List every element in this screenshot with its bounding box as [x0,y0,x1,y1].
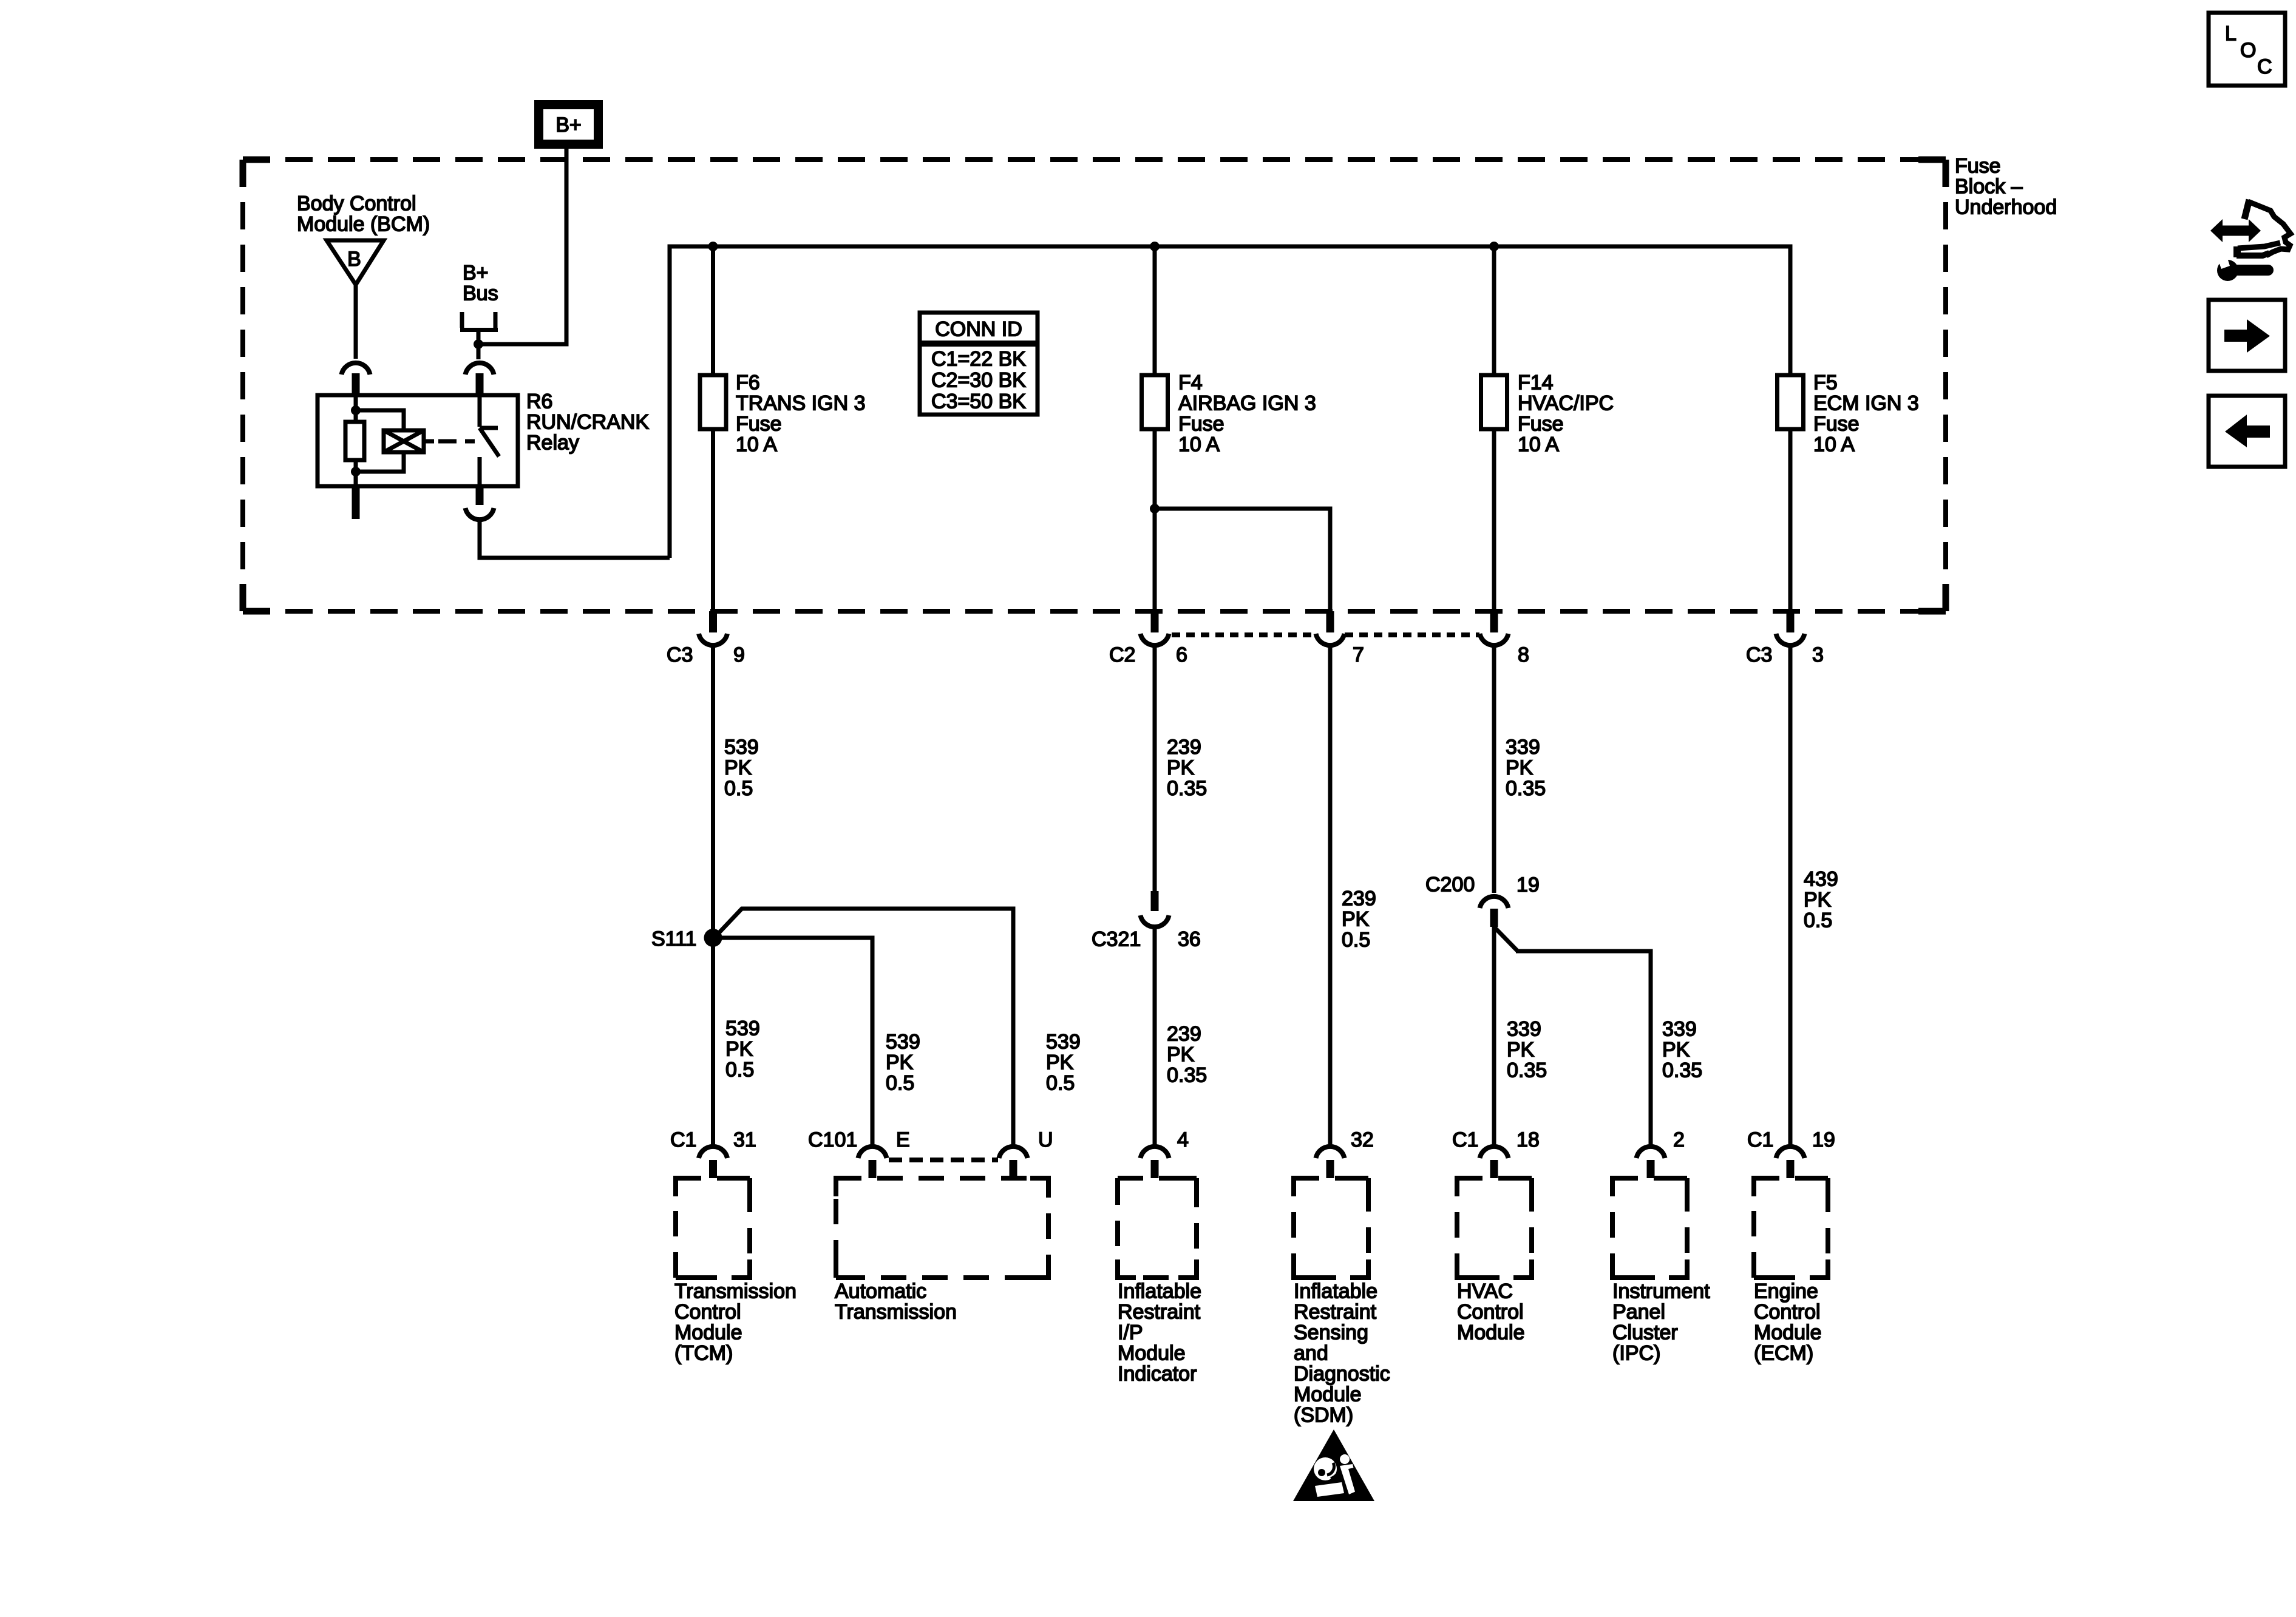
label R6 RUN/CRANK Relay [526,390,649,455]
fuse F6 [700,375,726,429]
svg-text:PK: PK [1804,889,1832,912]
svg-text:PK: PK [1506,756,1533,779]
svg-text:Sensing: Sensing [1294,1321,1368,1344]
label F6 TRANS IGN 3 Fuse 10 A [736,371,865,456]
svg-text:AIRBAG IGN 3: AIRBAG IGN 3 [1178,392,1316,415]
wire F4 branch to pin 7 [1155,509,1330,611]
svg-text:0.35: 0.35 [1662,1059,1702,1082]
wire F14 drop [1492,246,1496,611]
LOC reference box [2209,13,2285,86]
svg-text:0.5: 0.5 [886,1072,914,1095]
svg-text:Restraint: Restraint [1294,1301,1377,1324]
relay coil ground pin stub [352,486,360,519]
svg-text:PK: PK [1167,756,1195,779]
relay coil circuit wires [354,395,358,422]
svg-text:(TCM): (TCM) [674,1342,733,1365]
wire F5 lower [1788,429,1793,611]
connector C101 pin E [808,1128,910,1178]
svg-text:Fuse: Fuse [1955,155,2001,178]
svg-text:Inflatable: Inflatable [1118,1280,1201,1303]
right arrow navigation box [2209,300,2285,371]
svg-text:439: 439 [1804,868,1838,891]
svg-text:239: 239 [1167,736,1201,759]
svg-text:31: 31 [733,1128,756,1151]
svg-text:PK: PK [1167,1043,1195,1066]
svg-text:10 A: 10 A [1518,433,1559,456]
svg-text:C1: C1 [670,1128,696,1151]
svg-text:19: 19 [1517,873,1540,897]
wire F4 drop [1153,246,1157,611]
label Body Control Module (BCM) [297,192,430,236]
module HVAC dashed box [1457,1178,1532,1278]
svg-text:RUN/CRANK: RUN/CRANK [526,411,649,434]
svg-text:C200: C200 [1425,873,1475,897]
connector C3 pin 9 at fuse block [667,611,745,666]
svg-text:PK: PK [1662,1039,1690,1062]
svg-text:C1: C1 [1747,1128,1773,1151]
svg-text:339: 339 [1506,736,1540,759]
svg-text:3: 3 [1812,643,1824,666]
svg-text:Control: Control [1457,1301,1524,1324]
wire S111 to C101 pin U [719,909,1013,1146]
svg-text:Transmission: Transmission [835,1301,957,1324]
connector C1 pin 31 at TCM [670,1128,756,1178]
navigation hand/wrench icon [2210,200,2291,281]
svg-text:HVAC/IPC: HVAC/IPC [1518,392,1614,415]
svg-text:R6: R6 [526,390,552,413]
svg-text:(SDM): (SDM) [1294,1404,1353,1427]
svg-text:32: 32 [1351,1128,1374,1151]
svg-text:I/P: I/P [1118,1321,1143,1344]
svg-text:C3=50 BK: C3=50 BK [931,390,1026,413]
svg-text:O: O [2240,39,2256,62]
label 339 PK 0.35 upper [1506,736,1546,800]
fuse F4 [1142,375,1168,429]
connector C200 pin 19 [1425,873,1540,927]
connector C321 pin 36 [1092,891,1201,951]
connector arc BCM pin [342,363,370,375]
connector pin 7 at fuse block [1316,611,1364,666]
svg-text:PK: PK [1342,908,1370,931]
svg-text:Module: Module [674,1321,742,1344]
svg-text:ECM IGN 3: ECM IGN 3 [1813,392,1919,415]
coil inside relay [384,430,424,452]
wire C2-6 to C321 [1153,647,1157,891]
label 339 PK 0.35 to IPC [1662,1018,1702,1082]
svg-text:Fuse: Fuse [1813,413,1860,436]
wire C200 to HVAC [1492,927,1496,1146]
svg-text:PK: PK [725,1038,753,1061]
label Transmission Control Module (TCM) [674,1280,796,1365]
wire B+ feed to B+ Bus [478,146,566,344]
fuse F14 [1481,375,1507,429]
B+ power symbol box [534,100,603,149]
connector C3 pin 3 at fuse block [1746,611,1824,666]
resistor inside relay [345,422,364,460]
svg-text:Module: Module [1457,1321,1525,1344]
node bus-F6 [708,242,718,251]
svg-text:U: U [1038,1128,1053,1151]
label 239 PK 0.35 lower [1167,1023,1207,1087]
relay output pin + connector cup [476,486,484,505]
wire BCM to relay [354,285,358,359]
svg-text:Module (BCM): Module (BCM) [297,213,430,236]
label 539 PK 0.5 upper [724,736,759,800]
connector pin 4 at IR indicator [1141,1128,1189,1178]
svg-text:PK: PK [1046,1051,1074,1074]
wire pin7 to SDM [1328,647,1333,1146]
dashed link E to U [889,1158,998,1162]
BCM triangle symbol B [327,240,384,285]
wire S111 to C101 pin E [720,938,872,1146]
splice S111 [704,929,722,947]
svg-text:Bus: Bus [463,282,498,305]
label B+ Bus [463,262,498,305]
svg-text:PK: PK [724,756,752,779]
svg-text:539: 539 [725,1017,760,1040]
module IR I/P Module Indicator dashed box [1118,1178,1197,1278]
label 539 PK 0.5 to E [886,1031,920,1095]
coil actuator dashed link [424,439,434,444]
module Automatic Transmission dashed box [836,1178,1048,1278]
svg-text:Instrument: Instrument [1612,1280,1710,1303]
svg-text:Cluster: Cluster [1612,1321,1678,1344]
svg-text:Inflatable: Inflatable [1294,1280,1377,1303]
svg-text:C2: C2 [1109,643,1135,666]
svg-text:Control: Control [674,1301,741,1324]
svg-text:TRANS IGN 3: TRANS IGN 3 [736,392,865,415]
svg-text:Module: Module [1754,1321,1822,1344]
module TCM dashed box [676,1178,750,1278]
B+ Bus bar symbol [460,312,498,330]
svg-text:Indicator: Indicator [1118,1363,1197,1386]
label Fuse Block - Underhood [1955,155,2057,219]
label 339 PK 0.35 to HVAC [1507,1018,1547,1082]
svg-text:Module: Module [1118,1342,1186,1365]
node bus-F4 [1150,242,1160,251]
wire 539 PK to S111 [711,647,715,929]
svg-text:C1: C1 [1452,1128,1478,1151]
svg-text:Module: Module [1294,1383,1362,1406]
svg-text:6: 6 [1176,643,1187,666]
svg-text:4: 4 [1177,1128,1189,1151]
svg-text:9: 9 [733,643,745,666]
wire F6 drop [711,246,715,611]
svg-text:539: 539 [724,736,759,759]
svg-text:36: 36 [1178,928,1201,951]
connector arc B+ Bus pin [466,363,494,375]
svg-text:C321: C321 [1092,928,1141,951]
svg-text:L: L [2225,22,2237,46]
svg-text:0.35: 0.35 [1506,777,1546,800]
svg-text:S111: S111 [651,927,696,951]
svg-text:Underhood: Underhood [1955,196,2057,219]
module ECM dashed box [1754,1178,1828,1278]
relay R6 RUN/CRANK box [318,395,518,486]
label 539 PK 0.5 to TCM [725,1017,760,1082]
svg-text:0.35: 0.35 [1167,777,1207,800]
svg-text:10 A: 10 A [736,433,777,456]
svg-text:19: 19 [1812,1128,1835,1151]
node F4 branch [1150,504,1160,514]
svg-text:Engine: Engine [1754,1280,1818,1303]
connector C1 pin 19 at ECM [1747,1128,1835,1178]
svg-text:HVAC: HVAC [1457,1280,1513,1303]
module IPC dashed box [1612,1178,1687,1278]
svg-text:B+: B+ [463,262,489,285]
svg-text:Fuse: Fuse [1178,413,1224,436]
label HVAC Control Module [1457,1280,1525,1344]
svg-text:F4: F4 [1178,371,1203,395]
svg-text:539: 539 [1046,1031,1081,1054]
svg-text:Panel: Panel [1612,1301,1665,1324]
svg-text:C3: C3 [1746,643,1772,666]
svg-text:18: 18 [1517,1128,1540,1151]
svg-text:0.5: 0.5 [725,1059,754,1082]
module SDM dashed box [1294,1178,1368,1278]
svg-text:F14: F14 [1518,371,1554,395]
svg-text:Fuse: Fuse [1518,413,1564,436]
svg-text:F6: F6 [736,371,760,395]
svg-text:Restraint: Restraint [1118,1301,1201,1324]
wire relay output to bus [480,521,670,558]
svg-text:0.5: 0.5 [1046,1072,1075,1095]
svg-text:Relay: Relay [526,432,579,455]
connector C2 pin 6 at fuse block [1109,611,1187,666]
svg-text:CONN ID: CONN ID [935,318,1022,341]
svg-text:B+: B+ [555,114,582,137]
svg-text:and: and [1294,1342,1328,1365]
label 439 PK 0.5 [1804,868,1838,932]
svg-text:C2=30 BK: C2=30 BK [931,369,1026,392]
label Inflatable Restraint Sensing and Diagnostic Module (SDM) [1294,1280,1390,1427]
wire pin8 to C200 [1492,647,1496,893]
svg-text:Diagnostic: Diagnostic [1294,1363,1390,1386]
svg-text:239: 239 [1342,887,1376,910]
svg-text:Automatic: Automatic [835,1280,926,1303]
svg-text:339: 339 [1507,1018,1541,1041]
svg-text:0.35: 0.35 [1167,1064,1207,1087]
fuse block border corner dashes [243,160,1946,611]
label Engine Control Module (ECM) [1754,1280,1822,1365]
wire S111 to TCM [711,946,715,1146]
SDM airbag warning triangle [1293,1429,1374,1501]
svg-text:(IPC): (IPC) [1612,1342,1660,1365]
svg-text:Fuse: Fuse [736,413,782,436]
svg-text:7: 7 [1353,643,1364,666]
svg-text:539: 539 [886,1031,920,1054]
wire C321 to IR indicator [1153,929,1157,1146]
label F5 ECM IGN 3 Fuse 10 A [1813,371,1919,456]
svg-text:PK: PK [1507,1039,1535,1062]
svg-text:10 A: 10 A [1813,433,1855,456]
svg-text:B: B [347,248,361,271]
wire C3-3 to ECM [1788,647,1793,1146]
connector C1 pin 18 at HVAC [1452,1128,1540,1178]
wire main bus [670,246,1790,558]
connector pin 8 at fuse block [1480,611,1529,666]
svg-text:0.5: 0.5 [1804,909,1832,932]
svg-text:F5: F5 [1813,371,1838,395]
left arrow navigation box [2209,396,2285,467]
connector C101 pin U [999,1128,1053,1178]
label F14 HVAC/IPC Fuse 10 A [1518,371,1614,456]
CONN ID table [920,313,1038,415]
label 239 PK 0.35 upper [1167,736,1207,800]
svg-text:2: 2 [1673,1128,1685,1151]
svg-text:Block –: Block – [1955,175,2023,198]
svg-text:0.5: 0.5 [724,777,753,800]
svg-text:C3: C3 [667,643,693,666]
svg-text:0.5: 0.5 [1342,929,1370,952]
relay switch contacts [480,395,499,486]
label Inflatable Restraint I/P Module Indicator [1118,1280,1201,1386]
svg-text:239: 239 [1167,1023,1201,1046]
svg-text:Body Control: Body Control [297,192,416,215]
svg-text:PK: PK [886,1051,914,1074]
svg-text:C: C [2257,55,2272,78]
node bus-F14 [1489,242,1499,251]
label 539 PK 0.5 to U [1046,1031,1081,1095]
svg-text:339: 339 [1662,1018,1697,1041]
label F4 AIRBAG IGN 3 Fuse 10 A [1178,371,1316,456]
svg-text:Control: Control [1754,1301,1821,1324]
label Automatic Transmission [835,1280,957,1324]
svg-text:E: E [896,1128,910,1151]
label 239 PK 0.5 [1342,887,1376,952]
svg-text:C101: C101 [808,1128,857,1151]
svg-text:10 A: 10 A [1178,433,1220,456]
wire C200 split to IPC [1494,927,1517,951]
fuse F5 [1778,375,1804,429]
module box corner dashes [676,1178,1828,1278]
connector pin 2 at IPC [1637,1128,1685,1178]
svg-text:C1=22 BK: C1=22 BK [931,348,1026,371]
fuse block underhood dashed border [243,160,1946,611]
svg-text:8: 8 [1518,643,1529,666]
svg-text:Transmission: Transmission [674,1280,796,1303]
dotted connector group line [1172,632,1479,637]
svg-text:(ECM): (ECM) [1754,1342,1813,1365]
label Instrument Panel Cluster (IPC) [1612,1280,1710,1365]
svg-text:0.35: 0.35 [1507,1059,1547,1082]
connector pin 32 at SDM [1316,1128,1374,1178]
node B+ Bus junction dot [474,339,483,349]
